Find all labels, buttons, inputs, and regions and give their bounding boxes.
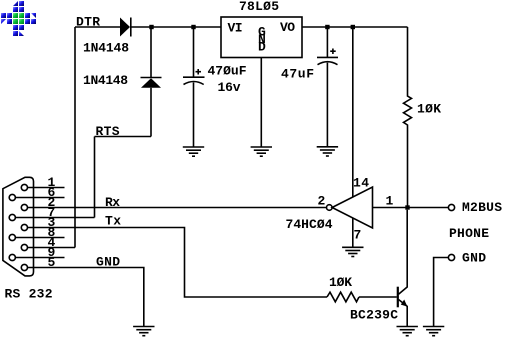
- svg-text:7: 7: [354, 228, 362, 243]
- svg-text:Rx: Rx: [105, 195, 120, 210]
- DB9 pin 8 circle: [9, 234, 15, 240]
- svg-text:2: 2: [318, 194, 326, 209]
- inverter U1 bubble: [327, 205, 333, 211]
- wire Rx line (pin2 to inverter input): [28, 207, 327, 209]
- wire R2 to transistor base: [359, 296, 397, 298]
- svg-text:Tx: Tx: [105, 214, 121, 229]
- wire pin 5 GND line: [28, 268, 144, 327]
- DB9 pin 1 circle: [21, 184, 27, 190]
- wire D1 cathode to 78L05 input: [131, 26, 221, 28]
- svg-text:5: 5: [48, 255, 56, 270]
- junction node at M2BUS/collector: [405, 205, 409, 209]
- diode D1 1N4148: [120, 18, 131, 37]
- svg-text:74HCØ4: 74HCØ4: [286, 217, 333, 232]
- svg-text:GND: GND: [96, 255, 120, 270]
- wire RTS horizontal: [95, 136, 152, 138]
- label + (C1 polarity): [196, 69, 202, 75]
- wire pin 7 to ground: [352, 218, 354, 247]
- DB9 pin 6 circle: [9, 194, 15, 200]
- ground below C1: [183, 147, 204, 156]
- diode D2 1N4148: [141, 78, 162, 88]
- svg-text:47ØuF: 47ØuF: [208, 64, 247, 79]
- ground below DB9 GND wire: [133, 327, 154, 336]
- wire GND terminal to ground: [434, 258, 449, 327]
- DB9 pin 2 circle: [21, 204, 27, 210]
- wire pin 8 stub: [15, 237, 64, 239]
- wire pin 6 stub: [15, 197, 64, 199]
- wire Tx line (pin3): [28, 228, 328, 298]
- svg-text:RTS: RTS: [96, 124, 120, 139]
- svg-text:47uF: 47uF: [281, 67, 314, 82]
- svg-text:RS 232: RS 232: [5, 287, 53, 302]
- DB9 pin 5 circle: [21, 264, 27, 270]
- DB9 pin 7 circle: [9, 214, 15, 220]
- wire DTR vertical: [74, 27, 76, 248]
- ground below GND terminal: [423, 327, 444, 336]
- logo pinwheel icon: [1, 1, 36, 36]
- wire C2 bottom to ground: [326, 63, 328, 147]
- svg-text:GND: GND: [462, 251, 486, 266]
- wire C1 bottom to ground: [193, 83, 195, 148]
- DB9 pin 9 circle: [9, 254, 15, 260]
- svg-text:DTR: DTR: [76, 15, 100, 30]
- label + (C2 polarity): [330, 49, 336, 55]
- ground below 78L05: [251, 147, 272, 156]
- svg-text:16v: 16v: [218, 80, 241, 95]
- wire to C1 top: [193, 27, 195, 77]
- terminal M2BUS: [448, 204, 454, 210]
- DB9 pin 4 circle: [21, 244, 27, 250]
- inverter U1 triangle 74HC04: [332, 187, 372, 228]
- svg-text:VI: VI: [228, 21, 243, 36]
- ground below pin 7: [342, 247, 363, 256]
- junction node at 47uF tap: [325, 25, 329, 29]
- wire pin 7 to RTS vertical: [15, 217, 94, 219]
- ground below Q1 emitter: [397, 327, 418, 336]
- junction node at D2 branch: [149, 25, 153, 29]
- wire junction to D2 cathode: [150, 27, 152, 78]
- wire inverter output to M2BUS terminal: [373, 207, 449, 209]
- terminal GND (phone): [448, 254, 454, 260]
- wire DTR horizontal: [75, 26, 120, 28]
- svg-text:1N4148: 1N4148: [83, 41, 129, 56]
- capacitor C1 470uF: [183, 77, 205, 84]
- svg-text:D: D: [258, 39, 266, 54]
- svg-text:PHONE: PHONE: [449, 226, 489, 241]
- connector J1 DB9 outline: [3, 177, 34, 276]
- svg-text:14: 14: [353, 176, 369, 191]
- wire to C2 top: [326, 27, 328, 57]
- resistor R1 10K vertical: [404, 27, 412, 208]
- DB9 pin 3 circle: [21, 224, 27, 230]
- junction node at pin14 tap: [351, 25, 355, 29]
- wire pin 9 stub: [15, 257, 64, 259]
- wire 78L05 output rail: [302, 26, 408, 28]
- ground below C2: [317, 147, 338, 156]
- svg-text:1ØK: 1ØK: [417, 102, 441, 117]
- junction node at 470uF tap: [191, 25, 195, 29]
- svg-text:M2BUS: M2BUS: [462, 200, 502, 215]
- capacitor C2 47uF: [317, 57, 338, 64]
- resistor R2 10K horizontal: [327, 292, 359, 302]
- wire D2 anode to RTS: [150, 88, 152, 137]
- wire RTS vertical to pin7: [94, 137, 96, 218]
- wire 78L05 GND pin: [260, 58, 262, 148]
- regulator U2 78L05 box: [221, 17, 302, 58]
- svg-text:BC239C: BC239C: [350, 308, 398, 323]
- transistor Q1 BC239C: [398, 210, 408, 327]
- wire pin 4 to DTR vertical: [28, 247, 76, 249]
- wire pin 14 vertical: [352, 27, 354, 197]
- svg-text:1N4148: 1N4148: [83, 73, 128, 88]
- svg-text:78LØ5: 78LØ5: [239, 0, 279, 14]
- svg-text:1ØK: 1ØK: [329, 275, 352, 290]
- svg-text:1: 1: [386, 194, 394, 209]
- svg-text:VO: VO: [280, 20, 295, 35]
- wire pin 1 stub: [28, 187, 65, 189]
